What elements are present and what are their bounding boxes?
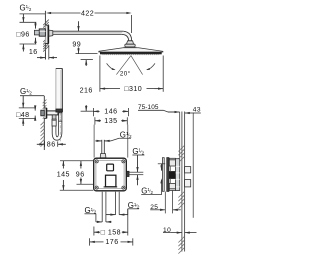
dim 146 left bar: [92, 108, 94, 116]
underline G1/2 bottom right: [128, 208, 139, 210]
dim 176 right bar: [132, 238, 134, 245]
bottom right stub dia right arrow: [119, 213, 124, 215]
svg-text:216: 216: [80, 86, 93, 94]
swivel line right: [131, 56, 143, 75]
svg-text:□310: □310: [124, 85, 142, 93]
upper square opening: [107, 164, 114, 171]
dimension 422 line right: [95, 12, 128, 14]
arrow to holder nut bottom: [34, 116, 36, 121]
nut highlight band: [39, 30, 45, 32]
dim 96 top arrow: [22, 17, 24, 22]
flange section hatch lower: [43, 36, 49, 42]
dim 135 right arrow: [122, 120, 127, 122]
screw top left: [95, 160, 98, 163]
arm cone at flange: [49, 30, 53, 36]
dim 158 left arrow: [94, 231, 99, 233]
valve top port: [169, 158, 175, 166]
right stub ext line bottom: [129, 174, 143, 176]
stub dia left arrow: [97, 140, 102, 142]
box body division mid2: [175, 178, 179, 180]
extension to box right: [127, 125, 129, 158]
dim 146 right bar: [127, 108, 129, 116]
valve detail line lower: [170, 179, 172, 184]
dim 25 left arrow: [160, 209, 165, 211]
rough-in box outline: [94, 158, 127, 191]
dim 86 right arrow: [58, 143, 63, 145]
top stub pipe right: [103, 140, 105, 154]
bottom right stub left line: [115, 192, 117, 215]
svg-text:422: 422: [81, 9, 94, 17]
swivel arrow arc right: [147, 63, 155, 69]
top stub collar: [100, 154, 106, 158]
valve top port band: [169, 159, 175, 161]
dim 16 right arrow: [49, 56, 54, 58]
stick inner shade: [60, 70, 62, 109]
holder clamp: [52, 115, 56, 119]
bottom left stub left line: [101, 192, 103, 222]
hose nut at holder: [52, 119, 56, 126]
dim 146 right arrow: [123, 110, 128, 112]
handle front extension: [192, 113, 194, 218]
dim 10 right arrow: [185, 231, 190, 233]
dim 176 right arrow: [128, 241, 133, 243]
valve bottom port band: [169, 188, 175, 190]
dim 96 top arrow: [80, 161, 82, 166]
svg-text:16: 16: [29, 48, 38, 56]
valve inlet black: [169, 172, 175, 179]
svg-text:176: 176: [105, 238, 118, 246]
ext line 216 top: [81, 59, 93, 61]
ext line 216 bottom: [81, 110, 93, 112]
ext line 145 bottom: [60, 189, 94, 191]
rough-in box inner line: [96, 160, 124, 188]
arrow to holder nut top: [34, 105, 36, 110]
leader vertical bottom left: [95, 214, 97, 222]
hose nut band: [52, 120, 56, 122]
box body division lower: [175, 186, 179, 188]
box front extension up: [179, 112, 181, 158]
screw bottom left: [95, 186, 98, 189]
arrow to nut top: [34, 23, 36, 28]
flange section hatch upper: [43, 20, 49, 26]
ext line head right: [162, 56, 164, 92]
holder nut behind wall: [41, 110, 45, 116]
wall line (hand shower view): [43, 96, 45, 150]
leader G1/2 side lower: [141, 180, 161, 194]
bottom left stub dia left arrow: [97, 221, 102, 223]
leader to G1/2 top: [111, 138, 131, 141]
ext line flange bottom: [20, 43, 37, 45]
dimension 422 arrows: [46, 12, 51, 14]
43 arrow: [185, 112, 190, 114]
wall line (arm view): [44, 11, 46, 60]
side wall hatching upper: [178, 146, 184, 152]
swivel arrowhead left: [112, 68, 116, 70]
dim 25 right arrow: [173, 209, 178, 211]
svg-text:146: 146: [104, 108, 117, 116]
dim 135 left bar: [94, 117, 96, 124]
G1/2 leader hand shower: [20, 95, 44, 97]
dim 176 left arrow: [90, 241, 95, 243]
svg-text:□96: □96: [16, 31, 30, 39]
valve bottom port: [169, 183, 175, 190]
underline 43: [192, 112, 200, 114]
bottom right stub dia left arrow: [110, 213, 115, 215]
dim 99 top arrow: [77, 26, 79, 31]
dim 25 left bar: [164, 192, 166, 214]
dim 135 right bar: [126, 117, 128, 124]
head connector cone: [126, 41, 133, 44]
handle knob side profile: [162, 158, 164, 192]
ext line flange top: [20, 21, 37, 23]
stick top cap: [56, 68, 62, 70]
dim 216 top arrow: [85, 60, 87, 65]
hand shower flange hatch upper: [43, 100, 47, 104]
front view right stub cap: [127, 171, 130, 176]
hand shower flange hatch mid: [43, 110, 47, 114]
hand shower wall flange: [44, 108, 46, 119]
extension line head center: [131, 15, 133, 33]
shower head body: [99, 48, 163, 52]
holder arm: [47, 111, 58, 115]
side upper arrow down: [160, 165, 162, 170]
right stub ext line top: [129, 171, 143, 173]
trim plate side profile: [167, 158, 169, 192]
dim 135 left arrow: [95, 120, 100, 122]
finished wall back line: [184, 112, 186, 252]
ext line 96 bottom: [77, 183, 94, 185]
top stub pipe left: [101, 140, 103, 154]
swivel arrowhead right: [146, 68, 150, 70]
ext line head bottom: [76, 53, 98, 55]
arm thread end: [34, 30, 39, 35]
dim 176 line left: [96, 241, 104, 243]
dim 216 bottom arrow: [85, 106, 87, 111]
dim 310 right arrow: [158, 87, 163, 89]
shower arm wall flange: [45, 25, 48, 43]
head ball joint collar: [125, 44, 135, 47]
ext line head left: [99, 56, 101, 92]
hand shower inlet nut: [59, 113, 62, 121]
dim 145 top arrow: [62, 161, 64, 166]
dim 310 line left: [109, 88, 121, 90]
lower square opening: [106, 175, 116, 187]
head cap step line: [124, 46, 137, 48]
dim 146 left arrow: [93, 110, 98, 112]
underline G1/2 right outlet: [132, 154, 144, 156]
svg-text:86: 86: [47, 140, 56, 148]
dimension 422 line left: [50, 12, 80, 14]
ext line valve top: [158, 163, 165, 165]
leader vertical bottom right: [127, 209, 129, 215]
screw bottom right: [122, 186, 125, 189]
shower head nozzles: [102, 53, 104, 56]
stub dia right arrow: [104, 140, 109, 142]
side lower arrow up: [160, 178, 162, 183]
arm connection nut behind wall: [39, 29, 45, 36]
box body division mid1: [175, 172, 179, 174]
dim 96 bottom arrow: [80, 179, 82, 184]
underline 10: [163, 232, 170, 234]
box body side: [175, 159, 179, 191]
dim 99 bottom arrow: [77, 48, 79, 53]
underline 25: [150, 209, 157, 211]
ext flange front for 16: [48, 45, 50, 60]
ext line holder flange top: [19, 107, 36, 109]
svg-text:□48: □48: [16, 111, 30, 119]
stick right bold edge: [61, 69, 63, 113]
hose outer: [52, 121, 62, 140]
svg-text:20°: 20°: [120, 70, 131, 77]
hand shower wall hatching lower: [41, 122, 45, 126]
arm elbow: [121, 31, 132, 41]
ext wall for 16: [44, 53, 46, 60]
svg-text:96: 96: [76, 171, 85, 179]
side wall hatching middle: [178, 192, 184, 198]
shower head dark rim: [100, 52, 161, 54]
dim 86 left arrow: [39, 143, 44, 145]
ext line box top left: [60, 160, 93, 162]
extension to box left: [93, 125, 95, 158]
75-105 arrow: [175, 111, 180, 113]
bottom right stub right line: [118, 192, 120, 215]
dim 176 left bar: [89, 238, 91, 245]
valve detail line upper: [170, 166, 172, 172]
hand shower stick: [56, 69, 62, 113]
box body division upper: [175, 165, 179, 167]
dim 25 right bar: [172, 191, 174, 214]
right stub dia bottom arrow: [136, 175, 138, 180]
bottom left stub dia right arrow: [106, 221, 111, 223]
ext line holder flange bottom: [19, 117, 36, 119]
dim 310 line right: [147, 88, 155, 90]
dim 145 bottom arrow: [62, 185, 64, 190]
svg-text:□ 158: □ 158: [101, 228, 121, 236]
dim 48 top arrow: [22, 103, 24, 108]
side wall hatching lower: [178, 237, 184, 243]
dim 96 bottom arrow: [22, 44, 24, 49]
rear union upper: [185, 167, 191, 173]
dim 158 left bar: [93, 227, 95, 236]
dim 158 right bar: [127, 209, 129, 236]
lower opening base bar: [104, 186, 118, 188]
dim 310 left arrow: [100, 87, 105, 89]
bottom left stub right line: [105, 192, 107, 222]
hose inner: [56, 121, 59, 137]
hand shower dark end: [56, 109, 62, 112]
underline G1/2 bottom left: [85, 213, 96, 215]
svg-text:145: 145: [57, 171, 70, 179]
dim 86 left bar: [44, 141, 46, 147]
G1/2 leader line: [20, 13, 46, 15]
dim 48 bottom arrow: [22, 118, 24, 123]
dim 158 right arrow: [123, 231, 128, 233]
dim 10 left arrow: [177, 231, 182, 233]
svg-text:99: 99: [72, 40, 81, 48]
shower arm pipe: [49, 31, 123, 34]
finished wall front line: [181, 112, 183, 252]
screw top right: [122, 160, 125, 163]
75-105 leader: [138, 110, 175, 112]
arrow to nut bottom: [34, 38, 36, 43]
svg-text:135: 135: [104, 117, 117, 125]
svg-text:43: 43: [193, 107, 201, 114]
hose centerline: [59, 112, 61, 142]
right stub dia top arrow: [136, 167, 138, 172]
swivel arrow arc left: [107, 63, 115, 69]
rear union lower: [185, 180, 191, 187]
swivel line left: [116, 56, 130, 75]
dim 176 line right: [121, 241, 127, 243]
dim 16 left arrow: [40, 56, 45, 58]
dim 86 right bar: [57, 141, 59, 146]
